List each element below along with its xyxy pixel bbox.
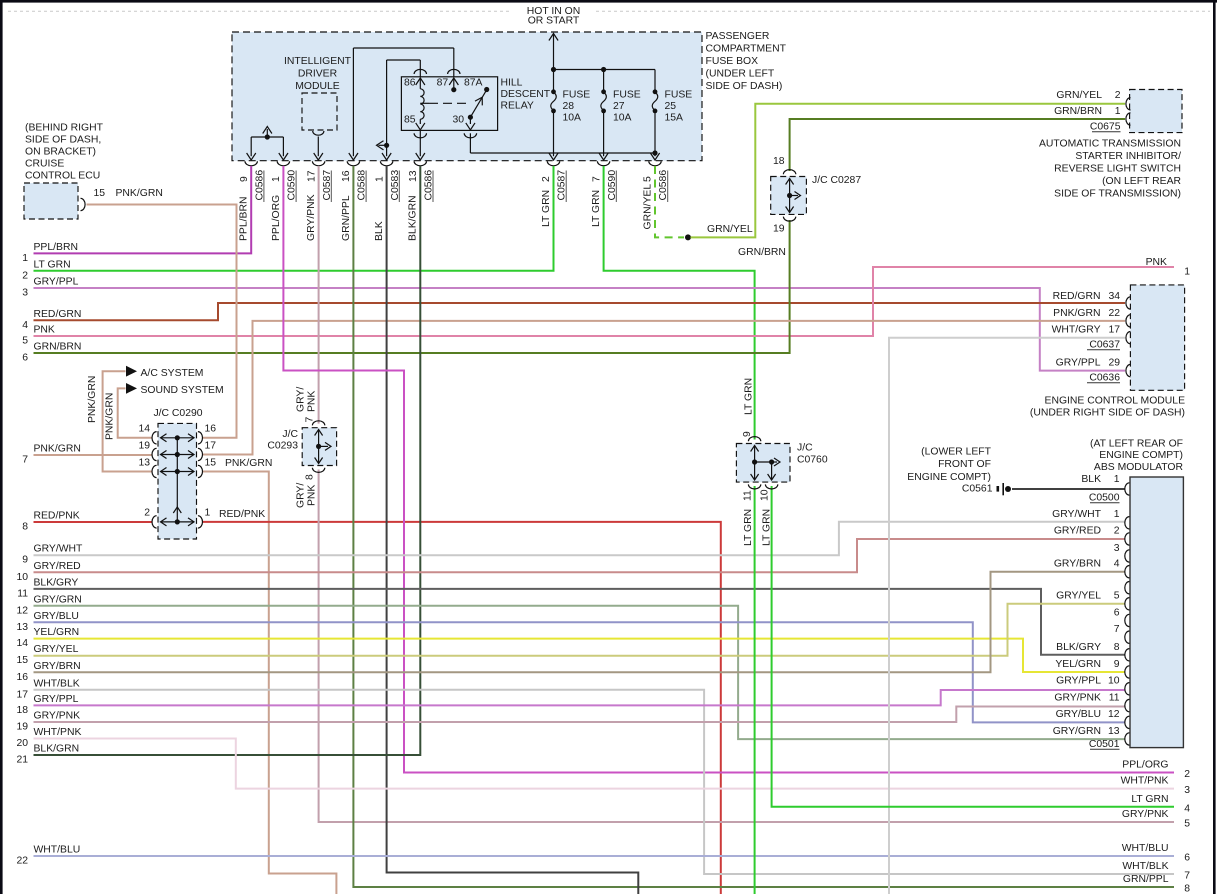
wire GRN/BRN circuit 6 to J/C C0287 xyxy=(34,220,790,353)
svg-text:87A: 87A xyxy=(464,78,483,89)
svg-text:1: 1 xyxy=(1115,106,1121,117)
junction bus feeding pins 9 and 1 xyxy=(247,127,288,161)
left wire 12 number and label xyxy=(16,594,81,616)
svg-text:1: 1 xyxy=(271,176,282,182)
svg-text:3: 3 xyxy=(1184,785,1190,796)
svg-text:GRY/PNK: GRY/PNK xyxy=(1122,809,1169,820)
svg-text:WHT/PNK: WHT/PNK xyxy=(1121,776,1169,787)
junction dot GRN/YEL xyxy=(685,234,691,240)
svg-text:C0500: C0500 xyxy=(1089,493,1120,504)
svg-text:13: 13 xyxy=(1108,726,1120,737)
svg-text:7: 7 xyxy=(591,176,602,182)
wire GRY/WHT circuit 9 to ABS pin 1 xyxy=(34,522,1126,555)
J/C C0293 pin 7 and wire labels xyxy=(295,387,317,423)
ABS pin 4 labels xyxy=(1054,559,1120,570)
svg-text:PNK: PNK xyxy=(34,325,55,336)
ABS pin 5 labels xyxy=(1056,591,1120,602)
intelligent driver module label xyxy=(284,56,352,92)
ABS connector C0500 label xyxy=(1089,493,1120,504)
ABS pin 6 labels xyxy=(1114,608,1120,619)
svg-text:34: 34 xyxy=(1108,291,1120,302)
svg-text:10A: 10A xyxy=(563,113,582,124)
svg-text:ABS MODULATOR: ABS MODULATOR xyxy=(1094,462,1184,473)
left wire 7 number and label xyxy=(22,444,81,466)
svg-text:15A: 15A xyxy=(665,113,684,124)
svg-text:SIDE OF DASH,: SIDE OF DASH, xyxy=(25,135,101,146)
sound system arrow xyxy=(126,383,137,394)
svg-text:2: 2 xyxy=(1115,90,1121,101)
svg-text:(UNDER RIGHT SIDE OF DASH): (UNDER RIGHT SIDE OF DASH) xyxy=(1030,408,1185,419)
svg-text:7: 7 xyxy=(22,455,28,466)
battery feed wire into fuse box xyxy=(549,34,558,70)
svg-text:RED/GRN: RED/GRN xyxy=(1053,291,1101,302)
svg-text:HILL: HILL xyxy=(501,78,523,89)
svg-text:(LOWER LEFT: (LOWER LEFT xyxy=(921,447,992,458)
left wire 16 number and label xyxy=(16,661,80,683)
relay pin sockets xyxy=(414,69,477,138)
svg-text:PNK: PNK xyxy=(307,485,318,506)
svg-text:WHT/BLK: WHT/BLK xyxy=(34,678,80,689)
svg-text:13: 13 xyxy=(16,622,28,633)
svg-text:11: 11 xyxy=(742,490,753,501)
svg-text:WHT/PNK: WHT/PNK xyxy=(34,727,82,738)
wire PPL/BRN circuit 1 xyxy=(34,166,252,253)
svg-text:GRY/YEL: GRY/YEL xyxy=(1056,591,1101,602)
wire PPL/ORG fuse pin 1 to circuit 2 right xyxy=(283,166,1174,773)
svg-text:BLK: BLK xyxy=(1081,474,1101,485)
wire GRY/GRN circuit 12 to ABS pin 13 xyxy=(34,606,1126,739)
svg-text:OR START: OR START xyxy=(528,16,580,27)
svg-text:28: 28 xyxy=(563,101,575,112)
C0675 pin 2 labels xyxy=(1056,90,1120,101)
fuse box caption xyxy=(706,31,787,92)
svg-text:5: 5 xyxy=(1184,819,1190,830)
relay pin 87 terminal xyxy=(437,78,459,93)
svg-text:8: 8 xyxy=(1114,642,1120,653)
svg-text:13: 13 xyxy=(408,170,419,182)
left wire 18 number and label xyxy=(16,694,78,716)
left wire 4 number and label xyxy=(22,309,81,331)
svg-text:RED/PNK: RED/PNK xyxy=(34,511,80,522)
svg-text:30: 30 xyxy=(453,115,465,126)
svg-text:GRY/PNK: GRY/PNK xyxy=(1054,693,1101,704)
svg-text:GRN/PPL: GRN/PPL xyxy=(1123,874,1169,885)
svg-text:SIDE OF TRANSMISSION): SIDE OF TRANSMISSION) xyxy=(1054,189,1181,200)
svg-text:9: 9 xyxy=(239,176,250,182)
pin 5 / C0586 / GRN/YEL labels xyxy=(642,170,669,230)
IDM output pin xyxy=(313,131,324,160)
svg-text:BLK/GRN: BLK/GRN xyxy=(34,744,80,755)
svg-text:CONTROL ECU: CONTROL ECU xyxy=(25,171,100,182)
border frame right bar xyxy=(1213,0,1216,894)
svg-text:YEL/GRN: YEL/GRN xyxy=(1055,659,1101,670)
svg-text:PPL/BRN: PPL/BRN xyxy=(239,197,250,241)
svg-text:GRN/BRN: GRN/BRN xyxy=(34,342,82,353)
svg-text:SOUND SYSTEM: SOUND SYSTEM xyxy=(141,385,224,396)
svg-text:10: 10 xyxy=(759,489,770,501)
right circuit 6 number and label xyxy=(1122,843,1190,864)
ABS connector C0501 label xyxy=(1089,739,1120,750)
svg-text:PNK/GRN: PNK/GRN xyxy=(34,444,81,455)
wire WHT/PNK circuit 20 to circuit 3 right xyxy=(34,739,1175,789)
svg-text:15: 15 xyxy=(205,458,217,469)
svg-text:BLK/GRN: BLK/GRN xyxy=(408,195,419,241)
ABS pin sockets xyxy=(1125,483,1130,745)
svg-text:11: 11 xyxy=(17,588,28,599)
passenger compartment fuse box xyxy=(232,32,702,161)
wire GRY/BLU circuit 13 to ABS pin 12 xyxy=(34,622,1126,722)
C0561 inline connector caption xyxy=(907,447,992,495)
svg-text:GRY/WHT: GRY/WHT xyxy=(1052,509,1102,520)
svg-text:5: 5 xyxy=(643,176,654,182)
svg-text:PNK/GRN: PNK/GRN xyxy=(87,376,98,423)
right circuit 3 number and label xyxy=(1121,776,1191,797)
transmission switch connector C0675 box xyxy=(1130,90,1182,133)
svg-text:17: 17 xyxy=(306,170,317,182)
svg-text:WHT/BLU: WHT/BLU xyxy=(1122,843,1169,854)
svg-text:J/C: J/C xyxy=(797,443,813,454)
svg-text:12: 12 xyxy=(16,605,28,616)
svg-text:25: 25 xyxy=(665,101,677,112)
svg-text:BLK: BLK xyxy=(374,221,385,241)
relay pin 87A terminal xyxy=(464,78,489,93)
ABS pin 1 labels xyxy=(1081,474,1119,485)
svg-text:6: 6 xyxy=(1114,608,1120,619)
svg-text:10A: 10A xyxy=(613,113,632,124)
svg-text:1: 1 xyxy=(1184,267,1190,278)
svg-text:GRY/RED: GRY/RED xyxy=(34,561,81,572)
wire YEL/GRN circuit 14 to ABS pin 9 xyxy=(34,639,1126,672)
svg-text:GRY/RED: GRY/RED xyxy=(1054,526,1101,537)
svg-text:2: 2 xyxy=(541,176,552,182)
svg-text:RED/PNK: RED/PNK xyxy=(219,509,265,520)
svg-text:1: 1 xyxy=(374,176,385,182)
svg-text:PPL/BRN: PPL/BRN xyxy=(34,242,78,253)
svg-text:AUTOMATIC TRANSMISSION: AUTOMATIC TRANSMISSION xyxy=(1039,139,1181,150)
fuse 27 label xyxy=(613,90,641,124)
svg-text:GRY/PPL: GRY/PPL xyxy=(34,694,79,705)
wire BLK/GRN fuse pin 13 to circuit 21 xyxy=(34,166,421,755)
junction connector J/C C0760 box xyxy=(736,444,790,483)
svg-text:27: 27 xyxy=(613,101,625,112)
pin 2 / C0587 / LT GRN labels xyxy=(541,170,568,227)
svg-text:(BEHIND RIGHT: (BEHIND RIGHT xyxy=(25,123,104,134)
svg-text:FUSE BOX: FUSE BOX xyxy=(706,56,759,67)
svg-text:J/C: J/C xyxy=(282,429,298,440)
svg-text:22: 22 xyxy=(1108,308,1120,319)
PNK label and circuit 1 number at right edge xyxy=(1146,257,1191,278)
wire RED/PNK J/C C0290 pin 1 to bottom exit xyxy=(203,522,721,894)
fuse 27 xyxy=(599,70,608,161)
wire BLK/GRY circuit 11 to ABS pin 8 xyxy=(34,589,1126,655)
svg-text:C0675: C0675 xyxy=(1090,122,1121,133)
svg-text:7: 7 xyxy=(1114,624,1120,635)
svg-text:PPL/ORG: PPL/ORG xyxy=(1122,760,1168,771)
svg-text:C0636: C0636 xyxy=(1089,373,1120,384)
svg-text:ENGINE CONTROL MODULE: ENGINE CONTROL MODULE xyxy=(1045,396,1186,407)
svg-text:GRY/GRN: GRY/GRN xyxy=(1053,726,1101,737)
svg-text:1: 1 xyxy=(1114,509,1120,520)
C0561 inline connector symbol xyxy=(997,483,1012,495)
wire PNK/GRN J/C C0290 pin 15 to bottom exit xyxy=(203,472,337,894)
svg-text:GRY/PNK: GRY/PNK xyxy=(306,194,317,241)
svg-text:J/C C0287: J/C C0287 xyxy=(812,175,861,186)
left wire 10 number and label xyxy=(16,561,80,583)
left wire 8 number and label xyxy=(22,511,80,533)
svg-text:C0637: C0637 xyxy=(1089,340,1120,351)
svg-text:BLK/GRY: BLK/GRY xyxy=(1056,642,1101,653)
svg-text:PNK: PNK xyxy=(1146,257,1167,268)
pin 1 / C0590 / PPL/ORG labels xyxy=(271,170,298,241)
svg-text:14: 14 xyxy=(138,424,150,435)
left wire 19 number and label xyxy=(16,711,80,733)
wire GRN/BRN J/C C0287 to C0675 pin 1 xyxy=(790,119,1125,171)
ABS pin 2 labels xyxy=(1054,526,1120,537)
svg-text:C0501: C0501 xyxy=(1089,739,1120,750)
svg-text:13: 13 xyxy=(138,458,150,469)
svg-text:LT GRN: LT GRN xyxy=(591,190,602,227)
svg-text:85: 85 xyxy=(404,115,416,126)
svg-text:J/C C0290: J/C C0290 xyxy=(153,408,202,419)
svg-text:PPL/ORG: PPL/ORG xyxy=(271,195,282,241)
wire GRN/PPL fuse pin 16 to circuit 8 right xyxy=(353,166,1174,887)
svg-text:GRN/BRN: GRN/BRN xyxy=(1054,106,1102,117)
left wire 6 number and label xyxy=(22,342,81,364)
svg-text:15: 15 xyxy=(94,188,106,199)
ECM pin 22 labels xyxy=(1053,308,1120,319)
J/C C0293 label xyxy=(267,429,298,452)
svg-text:RELAY: RELAY xyxy=(501,101,534,112)
relay pin 30 terminal xyxy=(453,115,476,130)
svg-text:8: 8 xyxy=(1184,884,1190,894)
HOT text backing xyxy=(512,3,596,26)
svg-text:ENGINE COMPT): ENGINE COMPT) xyxy=(1099,450,1183,461)
right circuit 5 number and label xyxy=(1122,809,1190,830)
svg-text:GRN/PPL: GRN/PPL xyxy=(341,195,352,241)
right circuit 4 number and label xyxy=(1131,794,1190,815)
svg-text:22: 22 xyxy=(16,856,28,867)
svg-text:GRY/YEL: GRY/YEL xyxy=(34,644,79,655)
svg-text:10: 10 xyxy=(16,572,28,583)
svg-text:PNK/GRN: PNK/GRN xyxy=(225,458,272,469)
svg-text:29: 29 xyxy=(1108,358,1120,369)
wire PNK circuit 5 xyxy=(34,267,1175,336)
J/C C0290 pin sockets xyxy=(152,432,203,528)
svg-text:19: 19 xyxy=(138,441,150,452)
svg-text:GRY/PPL: GRY/PPL xyxy=(1056,676,1101,687)
wire PNK/GRN cruise ECU to J/C C0290 pin 16 xyxy=(87,205,237,438)
wire GRN/YEL junction to C0675 pin 2 xyxy=(691,104,1126,238)
svg-text:DESCENT: DESCENT xyxy=(501,89,551,100)
ECM pin 29 labels xyxy=(1056,358,1121,369)
svg-text:LT GRN: LT GRN xyxy=(1131,794,1168,805)
svg-text:RED/GRN: RED/GRN xyxy=(34,309,82,320)
svg-text:ENGINE COMPT): ENGINE COMPT) xyxy=(907,472,991,483)
right circuit 7 number and label xyxy=(1122,861,1190,882)
svg-text:GRY/: GRY/ xyxy=(295,483,306,508)
svg-text:18: 18 xyxy=(773,156,785,167)
svg-text:(AT LEFT REAR OF: (AT LEFT REAR OF xyxy=(1090,439,1183,450)
ABS pin 3 labels xyxy=(1114,543,1120,554)
left wire 11 number and label xyxy=(17,577,78,599)
svg-text:9: 9 xyxy=(1114,659,1120,670)
svg-text:17: 17 xyxy=(1108,325,1120,336)
left wire 13 number and label xyxy=(16,611,79,633)
ECM pin sockets xyxy=(1126,297,1131,377)
ECM pin 34 labels xyxy=(1053,291,1121,302)
svg-text:GRY/PPL: GRY/PPL xyxy=(34,277,79,288)
svg-text:DRIVER: DRIVER xyxy=(298,69,338,80)
svg-text:GRY/BLU: GRY/BLU xyxy=(1056,709,1101,720)
pin 1 / C0583 / BLK labels xyxy=(374,170,401,241)
svg-text:14: 14 xyxy=(16,638,28,649)
svg-text:STARTER INHIBITOR/: STARTER INHIBITOR/ xyxy=(1075,151,1181,162)
wire GRY/PNK fuse pin 17 to J/C C0293 pin 7 xyxy=(318,166,320,424)
wire WHT/BLK circuit 17 to circuit 7 right xyxy=(34,690,1175,874)
ABS modulator box xyxy=(1130,477,1183,748)
pin 16 / C0588 / GRN/PPL labels xyxy=(341,170,368,241)
J/C C0760 pin 11 and wire label xyxy=(742,490,754,546)
hill descent relay box xyxy=(401,77,497,131)
HOT IN ON OR START feed label xyxy=(527,6,581,27)
svg-text:4: 4 xyxy=(1184,803,1190,814)
svg-text:8: 8 xyxy=(22,522,28,533)
svg-text:PNK/GRN: PNK/GRN xyxy=(1053,308,1100,319)
svg-text:15: 15 xyxy=(16,655,28,666)
fuse 25 xyxy=(650,70,659,161)
left wire 21 number and label xyxy=(16,744,79,766)
ECM caption xyxy=(1030,396,1185,419)
svg-text:FRONT OF: FRONT OF xyxy=(938,459,991,470)
right circuit 2 number and label xyxy=(1122,760,1190,781)
ABS pin 11 labels xyxy=(1054,693,1119,704)
wire relay 87 to pin 16 bus xyxy=(353,47,453,49)
fuse 25 label xyxy=(665,90,693,124)
wire WHT/BLU circuit 22 to circuit 6 right xyxy=(34,855,1175,857)
relay pin 86 terminal xyxy=(404,78,425,89)
svg-text:GRY/BRN: GRY/BRN xyxy=(34,661,81,672)
wire GRY/BRN circuit 16 to ABS pin 4 xyxy=(34,572,1126,673)
svg-text:YEL/GRN: YEL/GRN xyxy=(34,627,80,638)
right circuit 8 number and label xyxy=(1123,874,1190,894)
J/C C0287 internals xyxy=(786,179,801,213)
wire LT GRN fuse 27 to J/C C0760 pin 9 xyxy=(604,166,755,440)
left wire 20 number and label xyxy=(16,727,81,749)
fuse supply bus xyxy=(551,67,655,72)
svg-text:9: 9 xyxy=(22,555,28,566)
svg-text:LT GRN: LT GRN xyxy=(761,509,772,546)
svg-text:4: 4 xyxy=(1114,559,1120,570)
svg-text:8: 8 xyxy=(304,474,315,480)
J/C C0760 pin 10 and wire label xyxy=(759,489,772,546)
svg-text:WHT/GRY: WHT/GRY xyxy=(1052,325,1101,336)
svg-text:GRN/BRN: GRN/BRN xyxy=(738,247,786,258)
ECM connector C0636 label xyxy=(1087,373,1120,384)
svg-text:7: 7 xyxy=(304,417,315,423)
svg-text:GRY/BRN: GRY/BRN xyxy=(1054,559,1101,570)
border frame top bar xyxy=(0,0,1217,3)
svg-text:9: 9 xyxy=(742,431,753,437)
svg-text:5: 5 xyxy=(22,336,28,347)
wire GRY/RED circuit 10 to ABS pin 2 xyxy=(34,539,1126,572)
left wire 1 number and label xyxy=(22,242,78,264)
relay coil xyxy=(420,89,424,119)
svg-text:SIDE OF DASH): SIDE OF DASH) xyxy=(706,81,783,92)
svg-text:3: 3 xyxy=(22,288,28,299)
svg-text:MODULE: MODULE xyxy=(295,81,340,92)
faint page guide dashed line xyxy=(8,10,1210,12)
wire GRY/PPL circuit 18 to ABS pin 10 xyxy=(34,690,1126,705)
svg-text:20: 20 xyxy=(16,738,28,749)
wire GRY/PPL circuit 3 to ECM pin 29 xyxy=(34,288,1126,371)
svg-text:16: 16 xyxy=(341,170,352,182)
J/C C0760 label xyxy=(797,443,828,466)
junction connector J/C C0290 box xyxy=(158,423,197,539)
svg-text:17: 17 xyxy=(205,441,217,452)
svg-text:GRY/WHT: GRY/WHT xyxy=(34,544,84,555)
svg-text:GRY/PPL: GRY/PPL xyxy=(1056,358,1101,369)
pin 17 / C0587 / GRY/PNK labels xyxy=(306,170,333,241)
wire PNK/GRN J/C C0290 pin 17 to ECM pin 22 xyxy=(203,321,1126,455)
wire RED/PNK circuit 8 to J/C C0290 pin 2 xyxy=(34,521,153,523)
svg-text:FUSE: FUSE xyxy=(563,90,591,101)
svg-text:GRY/: GRY/ xyxy=(295,387,306,412)
wire LT GRN circuit 2 to fuse 28 xyxy=(34,166,554,271)
ABS pin 1 labels xyxy=(1052,509,1120,520)
junction connector J/C C0293 box xyxy=(302,428,336,466)
J/C C0290 pin numbers xyxy=(138,424,216,519)
wire relay 86 to BLK branch bus xyxy=(387,59,421,61)
left wire 22 number and label xyxy=(16,845,80,867)
left wire 9 number and label xyxy=(22,544,83,566)
svg-text:3: 3 xyxy=(1114,543,1120,554)
svg-text:PNK/GRN: PNK/GRN xyxy=(104,393,115,440)
border frame left bar xyxy=(0,0,3,894)
svg-text:WHT/BLK: WHT/BLK xyxy=(1122,861,1168,872)
svg-text:GRY/BLU: GRY/BLU xyxy=(34,611,79,622)
J/C C0760 pin 9 and wire label xyxy=(742,378,755,437)
svg-text:6: 6 xyxy=(1184,853,1190,864)
svg-text:ON BRACKET): ON BRACKET) xyxy=(25,147,96,158)
wire BLK C0561 to ABS pin 1 xyxy=(1012,488,1125,490)
svg-text:PNK/GRN: PNK/GRN xyxy=(116,188,163,199)
wire PNK/GRN J/C C0290 pin 13 to A/C system xyxy=(103,371,152,471)
svg-text:1: 1 xyxy=(205,508,211,519)
wire GRY/PNK J/C C0293 pin 8 to circuit 5 right xyxy=(319,470,1174,823)
wire relay 85 down to pin 13 xyxy=(419,130,421,156)
svg-text:LT GRN: LT GRN xyxy=(743,378,754,415)
svg-text:1: 1 xyxy=(1114,474,1120,485)
pin 13 / C0586 / BLK/GRN labels xyxy=(408,170,435,241)
wire WHT/GRY ECM pin 17 to bottom exit xyxy=(889,338,1125,894)
svg-text:6: 6 xyxy=(22,353,28,364)
wire LT GRN J/C C0760 pin 11 to bottom exit xyxy=(754,486,756,894)
C0675 connector label xyxy=(1090,122,1121,133)
svg-text:16: 16 xyxy=(16,672,28,683)
pin 7 / C0590 / LT GRN labels xyxy=(591,170,618,227)
J/C C0293 internals xyxy=(315,430,331,464)
ABS modulator caption xyxy=(1090,439,1183,473)
wire RED/GRN circuit 4 to ECM pin 34 xyxy=(34,303,1126,320)
relay switch linkage dashed xyxy=(420,102,429,104)
svg-text:5: 5 xyxy=(1114,591,1120,602)
svg-text:2: 2 xyxy=(22,270,28,281)
fuse 28 label xyxy=(563,90,591,124)
A/C system arrow xyxy=(126,366,137,377)
svg-text:2: 2 xyxy=(1184,769,1190,780)
fuse box connector sockets xyxy=(245,161,661,166)
left wire 5 number and label xyxy=(22,325,55,347)
